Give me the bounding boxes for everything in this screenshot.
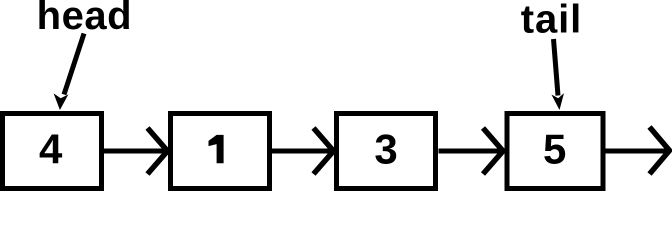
svg-text:3: 3 [374, 126, 397, 173]
node box 5 [507, 114, 603, 189]
node value 1 [209, 135, 224, 163]
head pointer arrow [54, 34, 84, 111]
node box 3 [337, 114, 436, 189]
svg-text:tail: tail [521, 0, 582, 42]
wire arrow 4 (null) [604, 127, 670, 174]
tail pointer arrow [551, 39, 564, 110]
svg-text:5: 5 [543, 126, 566, 173]
wire arrow 2 [272, 128, 334, 174]
svg-text:4: 4 [39, 126, 63, 173]
node box 4 [3, 114, 102, 189]
node box 1 [171, 114, 270, 189]
wire arrow 1 [104, 128, 168, 174]
svg-text:head: head [37, 0, 133, 38]
wire arrow 3 [439, 128, 504, 174]
